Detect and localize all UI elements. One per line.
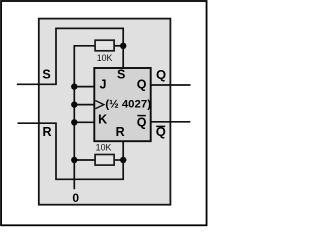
resistor R1 10K (top) (95, 40, 114, 51)
svg-text:J: J (100, 78, 107, 92)
svg-text:R: R (42, 125, 51, 139)
wire K stub (74, 121, 94, 123)
node: S-pin junction dot (120, 43, 126, 49)
node: R-pin junction dot (120, 157, 126, 163)
node: J junction dot (71, 83, 77, 89)
wire bottom resistor left lead (74, 159, 95, 161)
node: bottom resistor left junction dot (71, 157, 77, 163)
label Q-bar output overbar (156, 125, 165, 127)
svg-text:R: R (116, 125, 125, 139)
flip-flop U1 body (94, 68, 150, 141)
svg-text:K: K (98, 113, 107, 127)
page background (0, 0, 209, 228)
svg-text:Q: Q (156, 67, 166, 82)
svg-text:10K: 10K (97, 53, 113, 63)
grey circuit panel (39, 19, 171, 205)
wire top resistor right lead (114, 45, 123, 47)
svg-text:Q: Q (137, 78, 147, 92)
wire J stub (74, 86, 94, 88)
wire clock stub (74, 104, 94, 106)
svg-text:0: 0 (72, 191, 79, 205)
outer page border (1, 1, 207, 225)
wire Q-bar output (151, 121, 191, 123)
svg-text:(½ 4027): (½ 4027) (105, 99, 151, 111)
node: K junction dot (71, 119, 77, 125)
wire bottom resistor right lead (114, 159, 123, 161)
node: clock junction dot (71, 101, 77, 107)
pin label Q-bar overbar (137, 115, 145, 117)
wire R input: left entry, down, across bottom, up to R pin (18, 123, 124, 179)
svg-text:S: S (42, 68, 50, 82)
wire 0-net: top resistor left lead, vertical bus, 0 stub (74, 46, 95, 189)
svg-text:Q: Q (137, 115, 147, 129)
svg-text:10K: 10K (96, 143, 112, 153)
wire S input: left entry, up, across top, down to S pin (17, 28, 123, 84)
svg-text:S: S (117, 67, 125, 81)
resistor R2 10K (bottom) (95, 155, 114, 166)
clock wedge (95, 101, 104, 109)
wire Q output (151, 84, 191, 86)
